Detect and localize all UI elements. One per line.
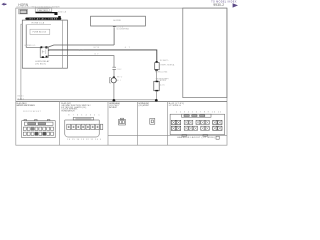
nav back arrow icon (1, 3, 6, 6)
horn relay K1 (40, 47, 48, 57)
battery box A inner (20, 10, 27, 13)
svg-text:CLOCKSPRING: CLOCKSPRING (116, 28, 129, 30)
sub box label (30, 29, 50, 34)
svg-text:9930-2: 9930-2 (213, 3, 224, 7)
svg-text:GY/G: GY/G (93, 47, 99, 49)
fuse symbol (27, 23, 51, 25)
svg-text:13 12 11 10 9 8 7: 13 12 11 10 9 8 7 (23, 111, 40, 113)
connector B-01 (22, 120, 56, 138)
svg-text:A/THEFT: A/THEFT (109, 106, 118, 109)
horn2 wire lower (113, 69, 115, 77)
svg-text:W/O: W/O (117, 77, 123, 79)
col5 caption box (216, 136, 219, 139)
right junction box (183, 8, 227, 98)
connector horn low (150, 118, 155, 124)
svg-text:GY/RED 0.5: GY/RED 0.5 (24, 45, 35, 47)
connector C-05 (170, 114, 225, 134)
svg-text:HORN (LOW): HORN (LOW) (155, 72, 168, 74)
fuse wire (26, 24, 40, 47)
inline connector horn high (112, 66, 116, 68)
horn low upper box (156, 61, 158, 63)
switch wire vertical (113, 27, 115, 45)
legend divider 2 (107, 102, 109, 146)
box B battery label (35, 8, 52, 12)
connector tick under switch (113, 26, 116, 28)
svg-text:FUSE BLOCK: FUSE BLOCK (33, 32, 47, 34)
bus bar wire (35, 12, 55, 14)
svg-text:G401: G401 (17, 95, 23, 97)
horn low lower box (154, 81, 159, 90)
horn1 ground wire (155, 91, 157, 99)
svg-text:HORN 15 A: HORN 15 A (32, 21, 45, 24)
horn2 wire (48, 56, 114, 67)
horn2 ground wire (113, 83, 115, 100)
legend divider 4 (166, 102, 168, 146)
ground bus (17, 99, 156, 101)
horn low wire middle (155, 71, 157, 82)
junction dot horn high (113, 99, 116, 102)
svg-text:W/ ANTI-: W/ ANTI- (160, 59, 169, 62)
svg-text:BATTERY: BATTERY (39, 9, 49, 12)
legend sub line right (108, 134, 227, 136)
svg-text:THEFT, HORN A: THEFT, HORN A (160, 63, 175, 66)
nav forward arrow icon (233, 3, 238, 7)
fuse block box (22, 20, 67, 68)
legend divider 1 (59, 102, 61, 146)
horn high H2 (113, 77, 115, 79)
svg-text:GY: GY (79, 50, 85, 52)
page frame (16, 8, 227, 145)
junction dot horn low (155, 99, 158, 102)
junction box C (54, 12, 57, 15)
connector B-02 (65, 118, 99, 138)
svg-text:BATTERY JUNCTION BOX: BATTERY JUNCTION BOX (17, 104, 36, 107)
left ground wire (21, 24, 22, 100)
svg-text:(GY) HORN: (GY) HORN (139, 105, 149, 107)
svg-text:HARNESS LAYOUT (I/P WIRE): HARNESS LAYOUT (I/P WIRE) (177, 136, 215, 139)
svg-text:S201 A: S201 A (58, 10, 66, 13)
svg-text:C162: C162 (117, 69, 122, 71)
hot at all times band (25, 18, 61, 21)
horn feed wire (48, 50, 157, 61)
connector tick below C (58, 16, 61, 18)
switch wire (46, 45, 114, 48)
fuse block inner line (62, 20, 64, 68)
svg-text:(LO): (LO) (160, 85, 165, 87)
connector horn high (119, 118, 126, 125)
legend divider 3 (137, 102, 139, 146)
battery box A (19, 9, 28, 14)
horn switch box (91, 16, 146, 26)
svg-text:HORN SWITCH: HORN SWITCH (61, 111, 75, 113)
svg-text:HORN: HORN (114, 20, 122, 22)
svg-text:16 15 14 13 12 11 10 9: 16 15 14 13 12 11 10 9 (67, 139, 101, 141)
svg-text:(IN BOX): (IN BOX) (35, 63, 46, 65)
svg-text:8 7 6 5 4 3 2 1: 8 7 6 5 4 3 2 1 (68, 114, 99, 116)
svg-text:I/P WIRE H: I/P WIRE H (169, 105, 182, 107)
legend top border (16, 101, 227, 103)
svg-text:HORN: HORN (160, 80, 167, 82)
